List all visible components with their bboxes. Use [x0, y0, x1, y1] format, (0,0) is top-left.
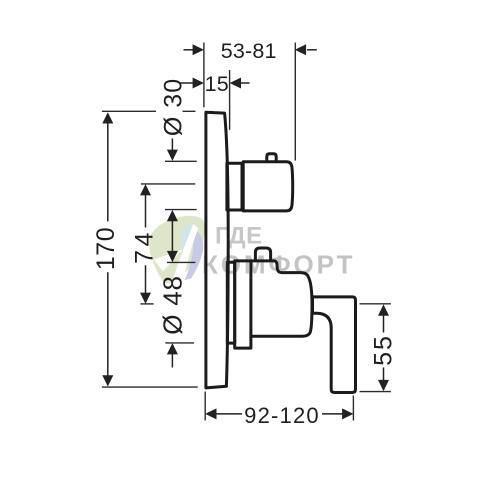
dim d30 upper arrow	[171, 139, 173, 152]
lower disc	[227, 262, 234, 343]
upper knob	[243, 162, 293, 211]
watermark logo	[149, 216, 355, 287]
wall plate	[206, 112, 228, 388]
lower body	[251, 261, 312, 336]
ext h 74 bottom	[141, 303, 154, 305]
ext v5 92-120 right	[352, 396, 354, 421]
ext v2 plate front	[229, 70, 231, 130]
ext h 74 top	[141, 183, 195, 185]
lever	[313, 297, 356, 393]
drawing	[206, 112, 356, 392]
dim 15 left arrow	[180, 82, 194, 84]
upper sleeve	[227, 163, 242, 210]
lavender band	[185, 231, 204, 281]
ext h 170 bottom	[102, 386, 198, 388]
dim 170 line	[107, 122, 109, 377]
upper nub	[267, 154, 276, 162]
dim 15 right arrow	[241, 82, 250, 84]
svg-text:КОМФОРТ: КОМФОРТ	[202, 250, 355, 280]
white wedge	[154, 250, 183, 272]
leaf	[149, 216, 205, 283]
ext v4 92-120 left	[204, 392, 206, 421]
dim 53-81 left arrow	[184, 49, 194, 51]
dim d30/d48 shared shaft	[171, 220, 173, 253]
svg-text:92-120: 92-120	[244, 403, 320, 428]
ext h d48 bottom	[165, 342, 194, 344]
svg-text:Ø 48: Ø 48	[158, 275, 188, 335]
dim 92-120 line	[215, 413, 344, 415]
ext h d30 top	[165, 160, 197, 162]
ext h 55 top	[360, 303, 391, 305]
ext h 170 top	[102, 110, 196, 112]
svg-text:ГДЕ: ГДЕ	[215, 223, 263, 250]
blue diamond	[182, 223, 195, 258]
ext h d48 top	[167, 261, 195, 263]
dim 55 line	[383, 314, 385, 382]
svg-text:53-81: 53-81	[221, 39, 277, 63]
white swoosh band	[171, 224, 198, 287]
dim 53-81 right arrow	[307, 49, 317, 51]
svg-text:170: 170	[92, 227, 120, 270]
ext h d30 bottom	[165, 209, 197, 211]
svg-text:55: 55	[370, 334, 398, 366]
thin extension lines	[102, 43, 391, 421]
dimension lines	[102, 44, 389, 419]
svg-text:74: 74	[130, 229, 158, 264]
lower nub	[255, 248, 270, 261]
ext v1 wall plane	[203, 43, 205, 108]
ext h 55 bottom	[360, 391, 391, 393]
ext v3 knob front	[294, 43, 296, 161]
dim d48 lower arrow	[171, 353, 173, 368]
svg-text:Ø 30: Ø 30	[159, 78, 187, 136]
svg-text:15: 15	[205, 72, 229, 96]
lower sleeve	[235, 261, 251, 348]
dim 74 line	[145, 194, 147, 295]
